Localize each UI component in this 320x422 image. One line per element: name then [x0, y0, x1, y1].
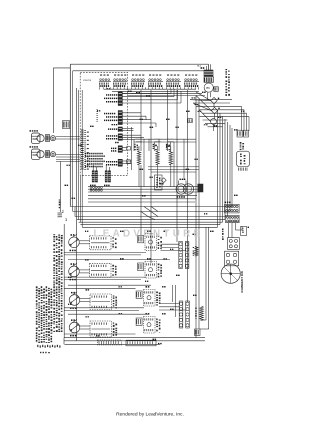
- svg-text:FAN: FAN: [33, 154, 38, 157]
- svg-text:LEADVENTURE: LEADVENTURE: [94, 229, 204, 240]
- svg-text:P1: P1: [207, 86, 211, 90]
- svg-text:C-5 C-5: C-5 C-5: [83, 80, 91, 82]
- svg-text:Rendered by LeadVenture, Inc.: Rendered by LeadVenture, Inc.: [116, 412, 184, 418]
- svg-text:DOWNDRAFT FAN: DOWNDRAFT FAN: [241, 271, 244, 292]
- svg-text:FAN: FAN: [33, 138, 38, 141]
